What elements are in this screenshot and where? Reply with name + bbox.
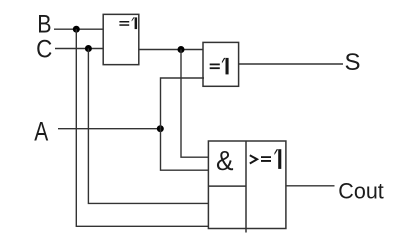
xor gate U2 label =1 <box>210 58 229 75</box>
svg-text:A: A <box>34 117 48 147</box>
junction dot on A wire <box>157 125 164 132</box>
and-or gate U3 outer box <box>208 141 286 229</box>
and cell bottom border <box>208 185 246 187</box>
wire A input <box>58 128 161 130</box>
svg-text:C: C <box>36 36 52 64</box>
wire A branch down to AND input 2 <box>161 129 210 171</box>
junction dot on XOR1 output <box>178 46 185 53</box>
svg-text:&: & <box>216 145 234 176</box>
svg-text:B: B <box>37 11 51 39</box>
wire C branch down to lower AND cell input <box>88 49 209 204</box>
xor gate U1 box <box>103 14 139 64</box>
wire A branch up to XOR2 second input <box>161 78 205 129</box>
and-or gate U3 divider <box>245 141 247 233</box>
wire XOR1 output to XOR2 input <box>139 49 204 51</box>
wire Cout output <box>286 185 335 187</box>
wire B branch down to lower AND cell input <box>76 29 209 226</box>
svg-text:S: S <box>345 49 361 76</box>
or cell label >=1 <box>250 149 282 169</box>
wire XOR1 output branch down to AND input 1 <box>181 50 209 158</box>
wire C input <box>55 48 104 50</box>
wire S output <box>239 63 343 65</box>
xor gate U1 label =1 <box>119 17 137 29</box>
junction dot on C wire <box>85 45 92 52</box>
junction dot on B wire <box>73 26 80 33</box>
xor gate U2 box <box>203 42 239 86</box>
svg-text:Cout: Cout <box>338 179 384 204</box>
wire B input <box>54 28 104 30</box>
